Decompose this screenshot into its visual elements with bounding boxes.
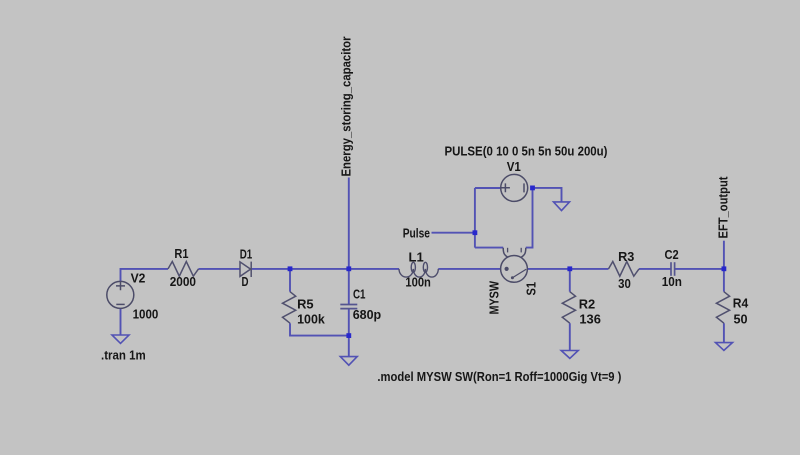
inductor L1 xyxy=(399,262,438,277)
node junction at C1 bottom xyxy=(346,333,351,338)
node junction at D1/R5 xyxy=(288,266,293,271)
wire node to C1 top xyxy=(348,269,350,305)
wire V1 minus to ground xyxy=(533,188,562,202)
svg-text:100n: 100n xyxy=(405,275,431,290)
svg-text:.model MYSW SW(Ron=1 Roff=1000: .model MYSW SW(Ron=1 Roff=1000Gig Vt=9 ) xyxy=(377,369,621,384)
svg-text:.tran 1m: .tran 1m xyxy=(101,347,146,362)
node junction at R2 xyxy=(567,266,572,271)
svg-text:V1: V1 xyxy=(507,159,521,174)
svg-text:C2: C2 xyxy=(665,247,679,262)
resistor R4 xyxy=(716,292,729,324)
wire corner to switch left control pin xyxy=(475,247,503,249)
wire switch S1 to R3 xyxy=(527,268,608,270)
ground below C1 xyxy=(340,357,357,366)
svg-text:S1: S1 xyxy=(523,282,538,296)
capacitor C1 xyxy=(340,305,357,309)
svg-text:Pulse: Pulse xyxy=(403,226,430,241)
svg-text:R3: R3 xyxy=(618,249,634,264)
ground below R4 xyxy=(716,343,733,351)
ground below R2 xyxy=(561,351,578,359)
wire node to R5 top xyxy=(289,269,291,292)
wire Pulse label to junction xyxy=(432,232,475,234)
svg-text:R5: R5 xyxy=(297,296,314,311)
svg-text:EFT_output: EFT_output xyxy=(716,176,731,239)
node junction at C1 top xyxy=(346,266,351,271)
wire R2 bottom to ground xyxy=(569,323,571,350)
switch S1 xyxy=(501,248,528,282)
svg-text:2000: 2000 xyxy=(170,274,196,289)
voltage source V1 xyxy=(501,174,528,201)
wire R4 bottom to ground xyxy=(723,323,725,342)
ground below V2 xyxy=(112,335,129,343)
svg-text:V2: V2 xyxy=(131,271,146,286)
node junction V1 minus xyxy=(530,186,535,191)
voltage source V2 xyxy=(107,281,134,308)
svg-text:D1: D1 xyxy=(240,246,253,261)
svg-text:10n: 10n xyxy=(662,274,682,289)
wire R5 bottom to C1 bottom node xyxy=(290,323,349,335)
resistor R5 xyxy=(283,292,296,324)
svg-text:R4: R4 xyxy=(733,296,749,311)
resistor R1 xyxy=(168,262,199,277)
resistor R3 xyxy=(609,262,640,277)
svg-text:100k: 100k xyxy=(297,312,325,327)
svg-text:C1: C1 xyxy=(353,287,366,302)
svg-text:D: D xyxy=(242,274,249,289)
wire corner to V1 plus terminal xyxy=(475,187,501,189)
wire V2 bottom to ground xyxy=(120,309,122,336)
wire V1 minus down to switch right control pin xyxy=(526,188,533,248)
resistor R2 xyxy=(562,292,575,324)
svg-text:Energy_storing_capacitor: Energy_storing_capacitor xyxy=(339,37,354,177)
svg-text:680p: 680p xyxy=(353,307,382,322)
capacitor C2 xyxy=(671,262,675,276)
ground at V1 minus xyxy=(554,202,570,211)
diode D1 xyxy=(240,262,251,277)
wire R3 to C2 xyxy=(639,268,671,270)
wire C1 bottom to ground xyxy=(348,309,350,357)
wire R1 to D1 xyxy=(199,268,241,270)
svg-text:R2: R2 xyxy=(579,297,596,312)
wire L1 to switch S1 xyxy=(438,268,500,270)
wire from V2 top to R1 xyxy=(121,269,169,281)
svg-text:50: 50 xyxy=(734,311,748,326)
svg-text:136: 136 xyxy=(579,312,601,327)
svg-text:MYSW: MYSW xyxy=(486,280,501,314)
svg-text:R1: R1 xyxy=(174,246,188,261)
node junction Pulse xyxy=(473,230,478,235)
wire node to R4 top xyxy=(723,269,725,292)
wire V1 plus loop vertical xyxy=(474,188,476,248)
node junction at EFT_output/R4 xyxy=(722,266,727,271)
svg-text:L1: L1 xyxy=(409,249,424,264)
wire node to R2 top xyxy=(569,269,571,292)
wire Energy_storing_capacitor label stub xyxy=(348,178,350,269)
wire EFT_output label stub xyxy=(723,241,725,269)
svg-text:30: 30 xyxy=(618,276,631,291)
svg-text:1000: 1000 xyxy=(133,306,159,321)
wire D1 to node at R5/C1/L1 xyxy=(251,268,399,270)
svg-text:PULSE(0 10 0 5n 5n 50u 200u): PULSE(0 10 0 5n 5n 50u 200u) xyxy=(445,143,608,158)
wire C2 to output node xyxy=(675,268,724,270)
